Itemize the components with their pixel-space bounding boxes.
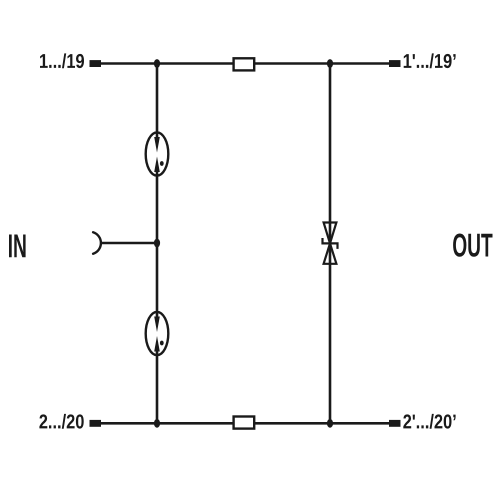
- label 2.../20: [39, 414, 83, 429]
- wire top rail: [100, 62, 390, 65]
- wire left vertical: [156, 64, 159, 424]
- IN stub arc: [93, 232, 101, 254]
- label IN: [9, 235, 26, 258]
- label 1.../19: [40, 53, 84, 68]
- label OUT: [453, 234, 492, 257]
- terminal 2'.../20': [389, 420, 401, 427]
- suppressor diode (bidirectional TVS): [323, 223, 338, 264]
- junction dot top-right: [327, 59, 333, 68]
- terminal 2.../20: [90, 420, 102, 427]
- junction dot top-left: [154, 59, 160, 68]
- terminal 1'.../19': [389, 60, 401, 67]
- resistor bottom: [234, 417, 255, 429]
- label 2'.../20': [403, 414, 455, 429]
- terminal 1.../19: [90, 60, 102, 67]
- wire right vertical: [329, 64, 332, 424]
- wire IN stub: [101, 242, 158, 245]
- gas discharge tube upper: [146, 132, 169, 175]
- resistor top: [234, 58, 255, 70]
- gas discharge tube lower: [146, 312, 169, 355]
- junction dot bottom-right: [327, 419, 333, 428]
- label 1'.../19': [404, 53, 456, 68]
- wire bottom rail: [100, 422, 390, 425]
- junction dot bottom-left: [154, 419, 160, 428]
- junction dot middle: [154, 239, 160, 248]
